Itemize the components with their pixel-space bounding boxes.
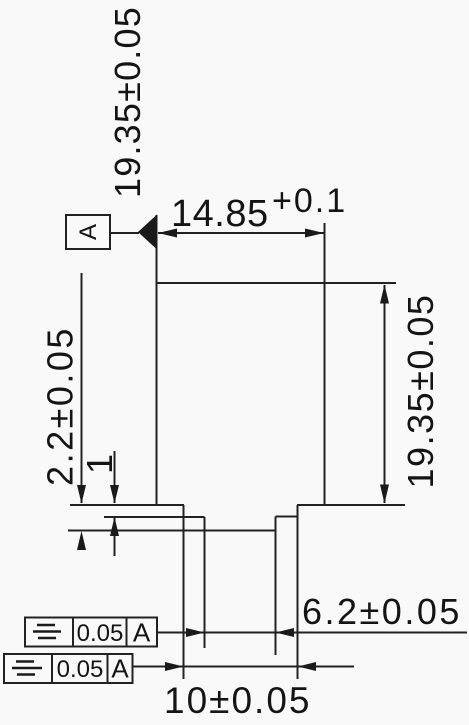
body bottom left segment — [70, 504, 184, 506]
svg-text:A: A — [133, 618, 151, 648]
FCF1 symmetry symbol — [33, 630, 61, 632]
arrowhead 19.35 bottom — [380, 485, 389, 504]
dimension line 19.35 right — [384, 285, 386, 503]
arrowhead 19.35 top — [380, 285, 389, 304]
right lead outer edge — [297, 505, 299, 679]
FCF1 divider 1 — [72, 618, 74, 647]
svg-text:0.05: 0.05 — [57, 656, 104, 683]
arrowhead 10 right — [298, 662, 316, 671]
arrowhead 14.85 right — [305, 229, 324, 238]
body bottom right segment with extension — [297, 504, 405, 506]
feature control frame 2 box — [4, 654, 133, 683]
datum triangle (filled) — [138, 215, 157, 250]
arrowhead 6.2 left — [186, 628, 205, 637]
svg-text:1: 1 — [79, 454, 120, 474]
extension line above datum triangle — [156, 215, 158, 283]
dimension line 2.2 — [81, 273, 83, 503]
step line y=516.5 right — [276, 516, 298, 518]
arrowhead 10 left — [165, 662, 184, 671]
right lead inner edge — [275, 517, 277, 656]
step line y=530.5 — [68, 530, 276, 532]
left lead outer edge — [183, 505, 185, 679]
FCF2 divider 2 — [107, 654, 109, 683]
arrowhead 2.2 lower — [77, 531, 86, 550]
svg-text:A: A — [111, 654, 129, 684]
svg-text:+0.1: +0.1 — [272, 182, 347, 220]
dimension line 10 — [133, 666, 354, 668]
svg-text:14.85: 14.85 — [171, 193, 269, 235]
FCF2 divider 1 — [51, 654, 53, 683]
svg-text:A: A — [75, 224, 102, 240]
body top edge with right extension — [157, 282, 397, 284]
svg-text:6.2±0.05: 6.2±0.05 — [302, 591, 462, 632]
FCF2 symmetry symbol — [12, 667, 42, 669]
arrowhead 1 upper — [110, 485, 119, 504]
arrowhead 14.85 left — [158, 229, 177, 238]
step line y=517 left — [104, 516, 205, 518]
feature control frame 1 box — [25, 618, 157, 647]
datum leader line — [110, 232, 139, 234]
svg-text:10±0.05: 10±0.05 — [164, 680, 311, 720]
body right edge with upper extension — [324, 223, 326, 505]
arrowhead 6.2 right — [276, 628, 295, 637]
body left edge — [156, 283, 158, 505]
svg-text:0.05: 0.05 — [77, 620, 124, 647]
arrowhead 2.2 upper — [77, 485, 86, 504]
dimension 1 lower tail — [114, 518, 116, 556]
dimension line 6.2 — [157, 632, 467, 634]
datum frame box A — [66, 215, 110, 249]
FCF1 divider 2 — [126, 618, 128, 647]
svg-text:2.2±0.05: 2.2±0.05 — [40, 326, 81, 486]
left lead inner edge — [204, 517, 206, 648]
svg-text:19.35±0.05: 19.35±0.05 — [400, 294, 441, 489]
dimension line 14.85 — [158, 232, 324, 234]
arrowhead 1 lower — [110, 517, 119, 536]
svg-text:19.35±0.05: 19.35±0.05 — [107, 6, 148, 198]
dimension line 1 — [114, 451, 116, 503]
